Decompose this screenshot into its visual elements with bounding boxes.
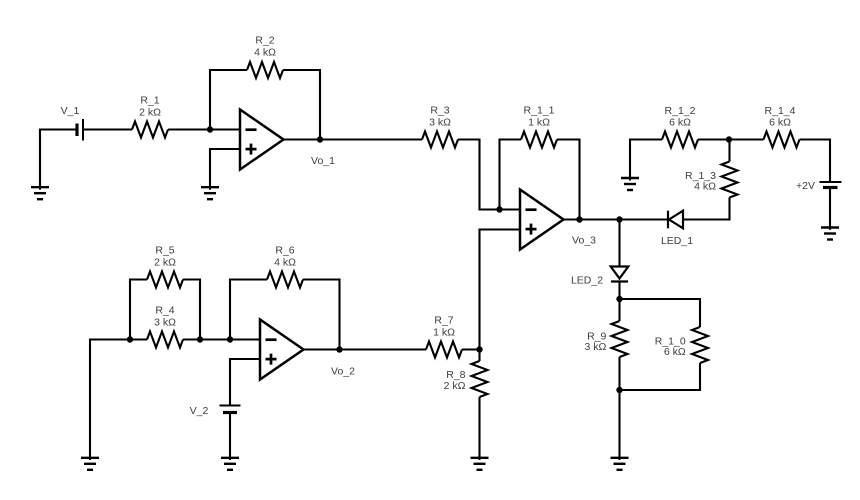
ground (R_1_2)	[621, 178, 639, 190]
ground (R_8)	[471, 458, 489, 470]
node junction R_6 branch	[227, 336, 233, 342]
svg-text:R_5: R_5	[155, 244, 174, 256]
svg-text:4 kΩ: 4 kΩ	[254, 47, 276, 59]
svg-text:Vo_1: Vo_1	[311, 155, 335, 167]
node junction R_4/R_5 left	[127, 336, 133, 342]
resistor R_4	[147, 332, 183, 348]
wire R_1_0 bottom to node	[620, 363, 701, 390]
wire +2V to ground	[829, 189, 831, 230]
svg-text:2 kΩ: 2 kΩ	[139, 106, 161, 118]
node junction U3 inverting input	[496, 206, 502, 212]
node Vo_3	[576, 216, 582, 222]
LED LED_2	[611, 267, 629, 282]
node junction R_7/R_8/U3+	[476, 346, 482, 352]
wire R_1_1 to U3 output	[557, 140, 580, 220]
wire U3 output Vo_3 to LED_1	[563, 218, 668, 220]
wire R_1_4 to +2V source	[800, 140, 831, 182]
ground (U2 input)	[81, 458, 99, 470]
node junction LED branch	[616, 216, 622, 222]
wire R_1_3 to top node	[728, 140, 730, 162]
wire U1 output Vo_1 to R_3	[284, 138, 422, 140]
wire R_3 to U3 inverting input	[458, 140, 520, 210]
svg-text:R_2: R_2	[255, 35, 274, 47]
svg-text:Vo_2: Vo_2	[331, 366, 355, 378]
ground (V_2)	[221, 458, 239, 470]
node junction R_9/R_1_0 bottom	[616, 387, 622, 393]
svg-text:V_2: V_2	[190, 405, 209, 417]
wire U1 non-inverting input to ground	[210, 149, 240, 190]
svg-text:2 kΩ: 2 kΩ	[154, 256, 176, 268]
wire U2 output Vo_2 to R_7	[303, 348, 426, 350]
wire V_1 negative lead to ground	[40, 130, 76, 190]
svg-text:LED_2: LED_2	[571, 275, 603, 287]
svg-text:1 kΩ: 1 kΩ	[528, 116, 550, 128]
resistor R_1_4	[764, 132, 800, 148]
voltage source V_2	[220, 406, 241, 413]
op-amp U1	[240, 110, 284, 170]
wire R_6 loop left	[230, 280, 267, 340]
wire feedback left to R_1_1	[500, 140, 522, 210]
svg-text:Vo_3: Vo_3	[572, 235, 596, 247]
LED LED_1	[668, 211, 683, 229]
wire R_5 loop right	[183, 280, 200, 340]
svg-text:6 kΩ: 6 kΩ	[664, 346, 686, 358]
svg-text:1 kΩ: 1 kΩ	[433, 326, 455, 338]
wire R_1 to U1 inverting input	[168, 128, 240, 130]
svg-text:R_7: R_7	[434, 314, 453, 326]
svg-text:2 kΩ: 2 kΩ	[444, 380, 466, 392]
resistor R_9	[612, 321, 628, 357]
svg-text:R_3: R_3	[430, 104, 449, 116]
wire feedback left to R_2	[210, 70, 247, 130]
svg-text:3 kΩ: 3 kΩ	[429, 116, 451, 128]
wire U2 non-inverting input to V_2	[230, 359, 260, 405]
resistor R_3	[422, 132, 458, 148]
wire R_5 loop left	[130, 280, 147, 340]
resistor R_1	[132, 122, 168, 138]
resistor R_1_3	[722, 162, 738, 198]
node junction U1 inverting input	[207, 126, 213, 132]
wire R_2 to U1 output	[283, 70, 320, 140]
svg-text:4 kΩ: 4 kΩ	[694, 180, 716, 192]
wire node to LED_2	[618, 220, 620, 267]
svg-text:6 kΩ: 6 kΩ	[669, 117, 691, 129]
resistor R_1_1	[521, 132, 557, 148]
resistor R_5	[147, 272, 183, 288]
wire R_4 left to ground	[90, 340, 147, 461]
svg-text:3 kΩ: 3 kΩ	[154, 316, 176, 328]
wire node to R_8	[478, 350, 480, 362]
svg-text:+2V: +2V	[796, 180, 815, 192]
resistor R_2	[247, 62, 283, 78]
op-amp U3	[520, 190, 564, 250]
svg-text:R_4: R_4	[155, 304, 174, 316]
voltage source +2V	[820, 182, 842, 188]
svg-text:R_6: R_6	[275, 244, 294, 256]
node junction R_1_2/R_1_4/R_1_3	[726, 136, 732, 142]
wire R_1_2 to R_1_4	[698, 138, 764, 140]
resistor R_6	[267, 272, 303, 288]
wire V_2 to ground	[229, 414, 231, 461]
wire R_7 to node	[462, 348, 480, 350]
svg-text:R_1_4: R_1_4	[765, 105, 796, 117]
wire R_6 to U2 output	[303, 280, 340, 350]
voltage source V_1	[77, 119, 83, 141]
svg-text:6 kΩ: 6 kΩ	[769, 117, 791, 129]
resistor R_7	[426, 342, 462, 358]
node Vo_2	[336, 346, 342, 352]
svg-text:4 kΩ: 4 kΩ	[274, 256, 296, 268]
ground (U1 non-inverting input)	[201, 187, 219, 199]
wire ground to R_1_2	[630, 140, 662, 181]
wire R_4 to U2 inverting input	[183, 338, 260, 340]
svg-text:R_1_1: R_1_1	[524, 104, 555, 116]
resistor R_1_2	[662, 132, 698, 148]
resistor R_1_0	[692, 327, 708, 363]
node junction R_4/R_5 right	[197, 336, 203, 342]
wire LED_2 to parallel node	[618, 282, 620, 322]
ground (+2V)	[821, 228, 839, 240]
wire LED_1 to R_1_3	[683, 198, 730, 220]
wire V_1 to R_1	[83, 128, 132, 130]
svg-text:R_1: R_1	[140, 94, 159, 106]
node junction R_9/R_1_0 top	[616, 296, 622, 302]
node Vo_1	[317, 136, 323, 142]
resistor R_8	[472, 361, 488, 397]
wire R_8 to ground	[478, 397, 480, 460]
svg-text:3 kΩ: 3 kΩ	[585, 341, 607, 353]
wire parallel top to R_1_0	[620, 299, 701, 327]
svg-text:V_1: V_1	[61, 105, 80, 117]
svg-text:LED_1: LED_1	[661, 235, 693, 247]
op-amp U2	[260, 320, 304, 380]
ground (R_9/R_1_0)	[611, 458, 629, 470]
wire U3 non-inverting input down to R_7/R_8 node	[480, 230, 521, 350]
svg-text:R_1_2: R_1_2	[665, 105, 696, 117]
wire R_9 bottom to ground	[618, 357, 620, 460]
ground (V_1)	[31, 187, 49, 199]
